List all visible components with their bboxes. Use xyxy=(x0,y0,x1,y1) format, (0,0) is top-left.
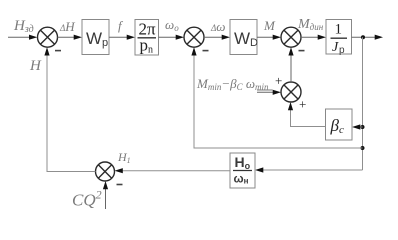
svg-text:p: p xyxy=(339,45,345,56)
svg-text:1: 1 xyxy=(335,22,343,38)
svg-text:+: + xyxy=(275,73,282,88)
node: speed feedback branch dot xyxy=(361,146,365,150)
node: beta_c branch dot xyxy=(361,125,365,129)
block W_D xyxy=(230,20,258,55)
wire: W_D to S3 xyxy=(257,35,281,40)
wire: W_p to 2π/p_n xyxy=(109,35,135,40)
label M_min − β_C ω_min xyxy=(196,76,273,92)
wire: H_o output to S4 xyxy=(115,168,231,173)
minus sign at S3 xyxy=(299,50,305,52)
svg-text:H: H xyxy=(29,58,42,74)
wire: speed feedback to S2 xyxy=(191,47,362,148)
minus sign at S4 xyxy=(117,184,123,186)
block H_o/ω_н xyxy=(230,153,255,188)
wire: 2π/p_n to S2 xyxy=(159,35,185,40)
wire: M_min input into S5 xyxy=(257,90,281,95)
wire: CQ² input into S4 xyxy=(103,181,108,209)
wire: S3 to 1/J_p xyxy=(301,35,326,40)
block β_c xyxy=(326,109,353,140)
summing junction S5 xyxy=(281,82,301,102)
svg-text:J: J xyxy=(332,40,339,55)
wire: S1 to W_p xyxy=(58,35,83,40)
summing junction S2 xyxy=(184,27,204,47)
wire: setpoint input into S1 xyxy=(8,35,37,40)
wire: into beta_c xyxy=(352,124,363,129)
wire: right vertical feedback drop xyxy=(362,37,364,170)
wire: S5 up to S3 xyxy=(288,47,293,82)
summing junction S1 xyxy=(38,27,58,47)
svg-text:M: M xyxy=(263,18,276,33)
block 2π/p_n xyxy=(135,20,159,56)
block 1/J_p xyxy=(326,20,352,57)
svg-text:+: + xyxy=(299,97,306,112)
minus sign at S2 xyxy=(203,50,209,52)
block W_p xyxy=(82,20,109,55)
summing junction S4 xyxy=(96,162,115,181)
summing junction S3 xyxy=(281,27,301,47)
wire: beta_c output to S5 xyxy=(288,102,326,127)
wire: S4 to S1 feedback xyxy=(44,47,95,171)
minus sign at S1 xyxy=(55,50,61,52)
wire: output with branch xyxy=(352,35,384,40)
node: output branch dot xyxy=(361,35,365,39)
wire: S2 to W_D xyxy=(204,35,230,40)
wire: bottom feedback into H_o block xyxy=(255,167,363,172)
